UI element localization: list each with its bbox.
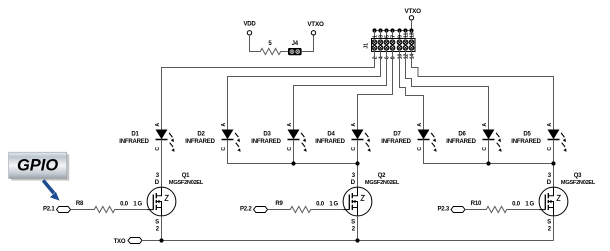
pin 7 J1 [390, 35, 396, 45]
LED D7 INFRARED [381, 123, 436, 152]
wire J1 pin14 to D5 anode [412, 48, 554, 130]
svg-text:P2.3: P2.3 [437, 206, 449, 212]
pin 8 J1 [390, 46, 396, 60]
pin 5 J1 [384, 35, 390, 45]
svg-text:G: G [529, 202, 534, 208]
svg-text:INFRARED: INFRARED [119, 139, 149, 145]
svg-text:A: A [351, 123, 357, 127]
svg-text:8: 8 [391, 56, 397, 59]
svg-text:GPIO: GPIO [17, 156, 58, 174]
power terminal VTXO (header) [405, 8, 422, 20]
svg-text:C: C [221, 147, 227, 151]
junction dot Q1 source [159, 238, 163, 242]
power terminal VTXO [307, 21, 324, 35]
svg-text:Q1: Q1 [182, 173, 190, 179]
resistor R9 0.0 [275, 201, 324, 213]
transistor Q2 MGSF2N02EL [343, 173, 400, 233]
pin 1 J1 [372, 35, 378, 45]
svg-text:VTXO: VTXO [307, 21, 324, 28]
junction dot header col 2 [378, 28, 382, 32]
svg-text:S: S [155, 219, 159, 225]
svg-text:A: A [155, 123, 161, 127]
svg-text:INFRARED: INFRARED [381, 139, 411, 145]
pin 9 J1 [397, 35, 403, 45]
junction dot D5 bus [551, 161, 555, 165]
svg-text:0.0: 0.0 [316, 201, 325, 207]
svg-text:7: 7 [391, 35, 397, 38]
resistor R10 0.0 [471, 201, 521, 213]
junction dot header col 7 [409, 28, 413, 32]
LED D5 INFRARED [511, 123, 566, 152]
svg-text:D7: D7 [393, 131, 401, 137]
LED D4 INFRARED [315, 123, 370, 152]
wire J1 pin8 to D4 anode [358, 48, 393, 130]
LED D6 INFRARED [446, 123, 501, 152]
svg-text:0.0: 0.0 [512, 201, 521, 207]
pin 12 J1 [403, 46, 409, 60]
svg-text:INFRARED: INFRARED [251, 139, 281, 145]
svg-text:A: A [547, 123, 553, 127]
junction dot D4 bus [355, 161, 359, 165]
wire VTXO to header bus [411, 20, 413, 31]
GPIO callout box [9, 152, 69, 180]
GPIO arrow [43, 180, 59, 200]
port P2.1 [43, 206, 71, 212]
wire J4 to VTXO [302, 35, 314, 52]
wire Q1 source to bus [161, 216, 163, 241]
svg-text:MGSF2N02EL: MGSF2N02EL [365, 180, 400, 186]
wire stub header pin 1 [374, 31, 376, 39]
wire D2 cathode bus to Q2 drain [228, 140, 358, 164]
svg-text:C: C [287, 147, 293, 151]
svg-text:D6: D6 [458, 131, 466, 137]
svg-text:S: S [351, 219, 355, 225]
svg-text:D5: D5 [523, 131, 531, 137]
wire stub header pin 11 [405, 31, 407, 39]
wire stub header pin 13 [411, 31, 413, 39]
svg-text:13: 13 [410, 32, 416, 38]
wire R8 to Q1 gate pin 1 G [117, 202, 148, 210]
pin 2 J1 [372, 46, 378, 60]
svg-text:VTXO: VTXO [405, 8, 422, 15]
LED D1 INFRARED [119, 123, 174, 152]
svg-text:D1: D1 [131, 131, 139, 137]
svg-text:C: C [351, 147, 357, 151]
resistor 5 [259, 41, 283, 55]
svg-text:Q2: Q2 [378, 173, 386, 179]
junction dot header col 6 [403, 28, 407, 32]
svg-text:D3: D3 [263, 131, 271, 137]
svg-text:G: G [333, 202, 338, 208]
svg-text:D4: D4 [327, 131, 335, 137]
transistor Q1 MGSF2N02EL [147, 173, 204, 233]
svg-text:14: 14 [410, 54, 416, 60]
wire Q3 source to bus [553, 216, 555, 241]
wire D1 cathode to Q1 drain [161, 140, 163, 188]
wire J1 pin12 to D6 anode [406, 48, 489, 130]
junction dot Q2 source [355, 238, 359, 242]
svg-text:INFRARED: INFRARED [511, 139, 541, 145]
LED D3 INFRARED [251, 123, 306, 152]
wire R10 to Q3 gate pin 1 G [509, 202, 540, 210]
wire D4 cathode to Q2 drain [357, 140, 359, 188]
wire P2.3 to R10 [465, 209, 485, 211]
svg-text:C: C [417, 147, 423, 151]
svg-text:C: C [155, 147, 161, 151]
svg-text:G: G [137, 202, 142, 208]
svg-text:Q3: Q3 [574, 173, 582, 179]
wire J1 pin4 to D2 anode [228, 48, 381, 130]
port TXO [114, 238, 142, 246]
wire VDD to resistor [250, 35, 259, 52]
svg-text:0.0: 0.0 [120, 201, 129, 207]
wire P2.1 to R8 [71, 209, 93, 211]
pin 11 J1 [403, 33, 409, 45]
wire J1 pin6 to D3 anode [294, 48, 387, 130]
wire D6 cathode to bus [488, 140, 490, 164]
wire resistor to J4 [283, 51, 289, 53]
wire header top bus [375, 30, 412, 32]
svg-text:R9: R9 [275, 201, 283, 207]
junction dot header col 4 [390, 28, 394, 32]
junction dot D6 bus [486, 161, 490, 165]
LED D2 INFRARED [185, 123, 240, 152]
svg-text:INFRARED: INFRARED [315, 139, 345, 145]
wire R9 to Q2 gate pin 1 G [313, 202, 344, 210]
svg-text:D2: D2 [197, 131, 205, 137]
junction dot header col 3 [384, 28, 388, 32]
svg-text:C: C [547, 147, 553, 151]
pin 13 J1 [409, 32, 415, 44]
connector J1 body [364, 39, 415, 52]
svg-text:P2.2: P2.2 [240, 206, 252, 212]
wire stub header pin 3 [380, 31, 382, 39]
pin 6 J1 [384, 46, 390, 60]
junction dot D3 bus [291, 161, 295, 165]
svg-text:J4: J4 [292, 41, 299, 47]
svg-text:MGSF2N02EL: MGSF2N02EL [169, 180, 204, 186]
wire stub header pin 5 [386, 31, 388, 39]
svg-text:R8: R8 [76, 201, 84, 207]
svg-text:R10: R10 [471, 201, 482, 207]
pin 3 J1 [378, 35, 384, 45]
svg-text:A: A [221, 123, 227, 127]
wire stub header pin 9 [399, 31, 401, 39]
svg-text:INFRARED: INFRARED [185, 139, 215, 145]
wire TXO source bus [142, 240, 554, 242]
wire D3 cathode to bus [293, 140, 295, 164]
port P2.3 [437, 206, 465, 212]
power terminal VDD [243, 22, 256, 35]
svg-text:A: A [417, 123, 423, 127]
svg-text:INFRARED: INFRARED [446, 139, 476, 145]
transistor Q3 MGSF2N02EL [539, 173, 596, 233]
jumper J4 [288, 41, 302, 55]
svg-text:A: A [287, 123, 293, 127]
svg-text:J1: J1 [364, 43, 370, 49]
svg-text:VDD: VDD [243, 22, 256, 28]
pin 4 J1 [378, 46, 384, 60]
wire D5 cathode to Q3 drain [553, 140, 555, 188]
svg-text:S: S [547, 219, 551, 225]
wire J1 pin2 to D1 anode [162, 48, 375, 130]
wire Q2 source to bus [357, 216, 359, 241]
svg-text:MGSF2N02EL: MGSF2N02EL [561, 180, 596, 186]
junction dot header col 5 [397, 28, 401, 32]
wire stub header pin 7 [392, 31, 394, 39]
svg-text:C: C [482, 147, 488, 151]
resistor R8 0.0 [76, 201, 129, 213]
wire D7 cathode bus to Q3 drain [424, 140, 554, 164]
svg-text:TXO: TXO [114, 239, 126, 245]
junction dot header col 1 [372, 28, 376, 32]
pin 10 J1 [397, 46, 403, 60]
port P2.2 [240, 206, 268, 212]
svg-text:A: A [482, 123, 488, 127]
wire J1 pin10 to D7 anode [400, 48, 424, 130]
pin 14 J1 [409, 46, 415, 60]
svg-text:P2.1: P2.1 [43, 206, 55, 212]
wire P2.2 to R9 [268, 209, 289, 211]
